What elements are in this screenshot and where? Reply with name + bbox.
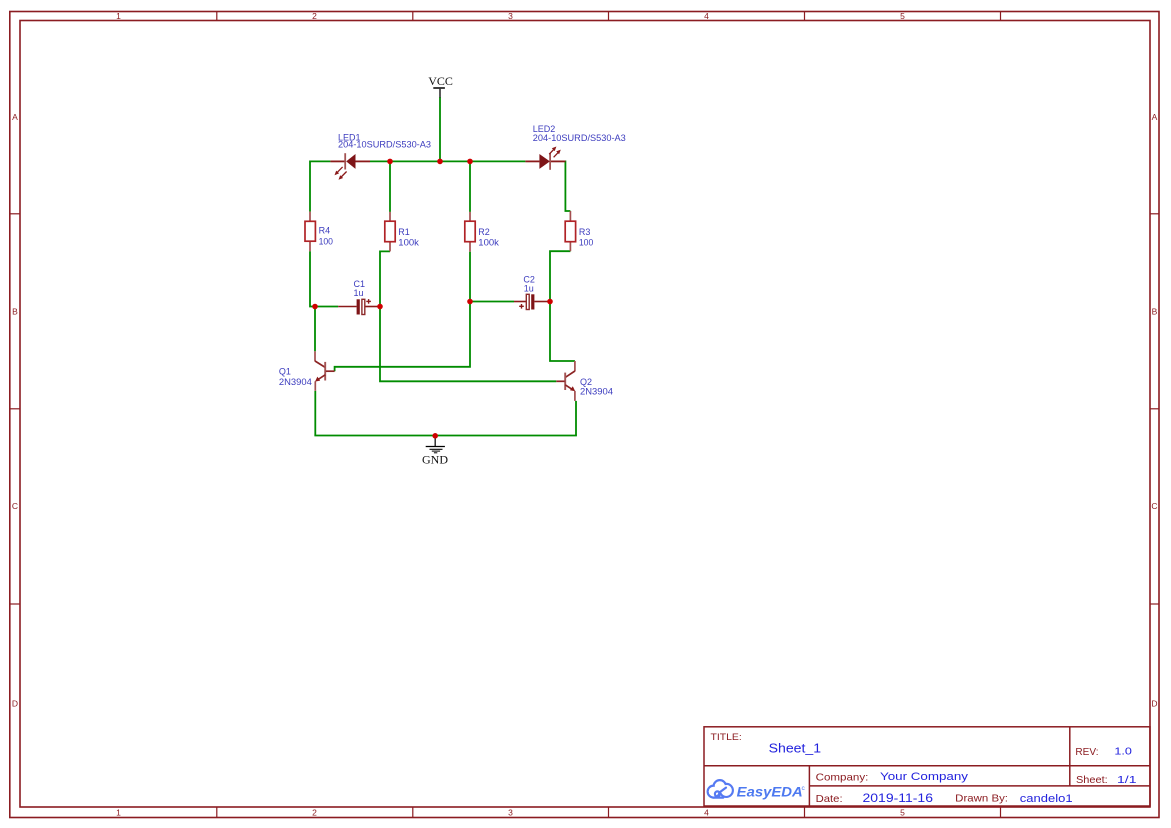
wire Q1 emitter down [314, 391, 316, 436]
ground symbol [426, 438, 445, 453]
wire top bus middle segment [370, 160, 525, 162]
svg-text:204-10SURD/S530-A3: 204-10SURD/S530-A3 [533, 133, 626, 143]
svg-text:2: 2 [312, 808, 317, 818]
svg-text:C: C [1151, 501, 1157, 511]
wire C2 left node down and across to Q1 base [335, 302, 470, 372]
R1 value label 100k [398, 238, 419, 248]
wire R2 branch from top bus [469, 161, 471, 212]
svg-text:2N3904: 2N3904 [279, 377, 312, 387]
svg-text:REV:: REV: [1075, 746, 1098, 758]
R3 designator label [579, 227, 591, 237]
Q1 value label 2N3904 [279, 377, 312, 387]
capacitor C1 polarized [338, 299, 380, 314]
svg-text:100: 100 [579, 238, 593, 248]
svg-text:GND: GND [422, 452, 448, 466]
Q1 designator label [279, 366, 291, 376]
power flag VCC [433, 88, 445, 98]
svg-text:Company:: Company: [816, 771, 869, 783]
Q2 designator label [580, 377, 592, 387]
wire VCC stub [439, 97, 441, 161]
svg-text:100: 100 [319, 237, 333, 247]
svg-text:Sheet:: Sheet: [1076, 775, 1108, 786]
svg-text:Drawn By:: Drawn By: [955, 793, 1008, 805]
resistor R1 [385, 212, 395, 252]
resistor R2 [465, 212, 475, 252]
capacitor C2 polarized [514, 294, 550, 309]
svg-text:5: 5 [900, 808, 905, 818]
junction at C2 right node [547, 299, 553, 305]
resistor R3 [565, 211, 575, 251]
svg-text:1.0: 1.0 [1114, 745, 1132, 757]
svg-text:R2: R2 [478, 227, 490, 237]
C1 value label 1u [354, 288, 364, 298]
wire LED2 corner down to R3 top [565, 161, 570, 212]
svg-text:2019-11-16: 2019-11-16 [863, 793, 934, 805]
junction at R2 top node [467, 159, 473, 165]
svg-text:204-10SURD/S530-A3: 204-10SURD/S530-A3 [338, 140, 431, 150]
Q2 value label 2N3904 [580, 386, 613, 396]
svg-text:4: 4 [704, 11, 709, 21]
svg-text:R1: R1 [398, 227, 410, 237]
svg-text:2: 2 [312, 11, 317, 21]
svg-text:VCC: VCC [428, 74, 453, 88]
R4 designator label [319, 226, 331, 236]
svg-text:Q1: Q1 [279, 366, 291, 376]
wire top bus left segment [310, 160, 331, 162]
svg-text:100k: 100k [398, 238, 419, 248]
junction at R1 top node [387, 159, 393, 165]
junction at VCC node [437, 159, 443, 165]
wire R2 bottom to C2 left node [469, 252, 471, 302]
svg-text:C: C [12, 501, 18, 511]
junction at C1 left node [312, 304, 318, 310]
net label GND [422, 452, 448, 466]
svg-text:1: 1 [116, 11, 121, 21]
net label VCC [428, 74, 453, 88]
C1 designator label [354, 279, 366, 289]
wire C2 row left segment [470, 301, 514, 303]
svg-text:Date:: Date: [816, 793, 843, 805]
junction at GND node [432, 433, 438, 439]
wire R1 bottom jog to C1 right column [380, 251, 390, 306]
junction at C1 right node [377, 304, 383, 310]
svg-text:Your Company: Your Company [880, 771, 969, 783]
transistor Q1 NPN mirrored [315, 351, 335, 391]
svg-text:1u: 1u [524, 284, 534, 294]
svg-text:5: 5 [900, 11, 905, 21]
svg-text:A: A [1152, 112, 1158, 122]
svg-text:1/1: 1/1 [1117, 774, 1137, 786]
R2 value label 100k [478, 238, 499, 248]
LED LED2 [525, 147, 565, 170]
C2 value label 1u [524, 284, 534, 294]
R2 designator label [478, 227, 490, 237]
wire C1 row left segment [315, 306, 338, 308]
wire bottom ground bus [315, 434, 576, 437]
svg-text:R3: R3 [579, 227, 591, 237]
svg-text:A: A [12, 112, 18, 122]
svg-text:3: 3 [508, 11, 513, 21]
LED2 value label 204-10SURD/S530-A3 [533, 133, 626, 143]
LED1 value label 204-10SURD/S530-A3 [338, 140, 431, 150]
svg-text:TITLE:: TITLE: [711, 732, 742, 742]
LED2 designator label [533, 124, 556, 134]
svg-text:D: D [1151, 699, 1157, 709]
svg-text:D: D [12, 699, 18, 709]
svg-text:2N3904: 2N3904 [580, 386, 613, 396]
svg-text:candelo1: candelo1 [1020, 793, 1073, 805]
junction at C2 left node [467, 299, 473, 305]
wire R3 bottom jog to C2 right column [550, 251, 570, 301]
C2 designator label [523, 275, 535, 285]
svg-text:R4: R4 [319, 226, 331, 236]
transistor Q2 NPN [556, 361, 575, 401]
wire C2 right node down to Q2 collector [550, 302, 575, 362]
svg-text:1u: 1u [354, 288, 364, 298]
svg-text:EasyEDA: EasyEDA [737, 783, 803, 799]
svg-text:1: 1 [116, 808, 121, 818]
wire left branch down to R4 [309, 161, 311, 212]
R4 value label 100 [319, 237, 333, 247]
wire Q2 emitter down [575, 401, 577, 436]
svg-text:100k: 100k [478, 238, 499, 248]
LED1 designator label [338, 133, 361, 143]
svg-text:3: 3 [508, 808, 513, 818]
svg-text:B: B [1152, 307, 1158, 317]
svg-text:4: 4 [704, 808, 709, 818]
R3 value label 100 [579, 238, 593, 248]
wire C1 left node down to Q1 collector [314, 307, 316, 352]
wire C1 right node down and across to Q2 base [380, 307, 556, 382]
resistor R4 [305, 212, 315, 252]
wire R1 branch from top bus [389, 161, 391, 212]
svg-text:B: B [12, 307, 18, 317]
LED LED1 [330, 153, 370, 180]
R1 designator label [398, 227, 410, 237]
wire R4 bottom to C1 left node [310, 251, 316, 306]
svg-text:Sheet_1: Sheet_1 [769, 740, 822, 755]
